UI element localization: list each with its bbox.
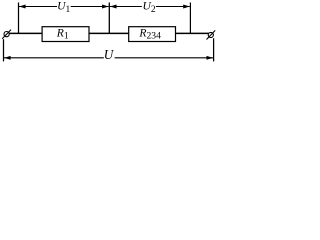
arrow U left [4,56,11,60]
wire left terminal to R1 [9,32,42,34]
arrow U1 left [19,5,26,9]
right terminal [208,32,213,37]
wire R234 to right terminal [176,32,209,34]
wire R1 to R234 [89,32,129,34]
svg-text:U: U [104,47,115,62]
extension line right (above R234 right side) [189,3,191,34]
extension line bottom right [213,38,215,61]
arrow U2 left [110,5,117,9]
extension line middle (junction between R1 and R234) [108,3,110,34]
dimension line U1 [19,6,57,8]
left terminal [4,31,9,36]
resistor R234 [129,27,176,42]
extension line left (above left terminal) [18,3,20,34]
arrow U2 right [183,5,190,9]
resistor R1 [42,27,89,42]
extension line bottom left [3,39,5,61]
dimension line U2 [110,6,142,8]
arrow U1 right [102,5,109,9]
arrow U right [207,56,214,60]
background [0,0,217,66]
dimension line U (bottom) [4,57,104,59]
